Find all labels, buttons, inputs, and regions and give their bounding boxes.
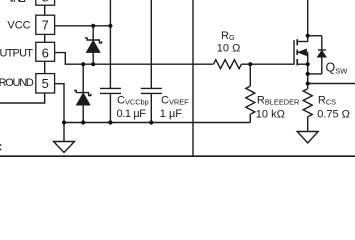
wire body-diode top horizontal [308, 35, 322, 37]
transistor Q1 body stub [298, 51, 308, 53]
junction dot rail/CVCCbp [108, 120, 112, 124]
zener diode D2 triangle [77, 93, 90, 105]
capacitor CVREF plates [141, 87, 162, 89]
wire zener D1 anode to output net [92, 52, 94, 64]
svg-text:RG: RG [221, 30, 235, 42]
junction dot VCC/CVCCbp [108, 24, 112, 28]
junction dot rail/ground [62, 120, 66, 124]
svg-text:OUTPUT: OUTPUT [0, 47, 33, 59]
svg-text:VCC: VCC [7, 19, 30, 31]
svg-text:8: 8 [42, 0, 49, 4]
zener diode D2 cathode bar with hooks [74, 91, 91, 96]
svg-text:RBLEEDER: RBLEEDER [257, 94, 299, 106]
junction dot RG/RBLEEDER [248, 62, 252, 66]
wire body-diode vertical [321, 36, 323, 74]
junction dot source stub [306, 62, 310, 66]
resistor RCS zigzag [303, 89, 312, 117]
svg-text:CVREF: CVREF [161, 94, 189, 106]
junction dot rail/zener D2 [81, 120, 85, 124]
svg-text:0.75 Ω: 0.75 Ω [317, 108, 350, 120]
wire RG to gate with gate bar [241, 40, 294, 64]
ground symbol (right) [297, 132, 318, 144]
wire RBLEEDER top lead [249, 64, 251, 86]
wire RBLEEDER bottom lead [249, 114, 251, 122]
transistor Q1 body arrow [298, 49, 306, 55]
zener diode D1 cathode bar with hooks [85, 38, 102, 43]
svg-text:10 kΩ: 10 kΩ [256, 108, 285, 120]
wire zener D2 top branch from output net [82, 64, 84, 92]
svg-text:1 µF: 1 µF [160, 108, 183, 120]
IC pin box 6 (OUTPUT) [36, 42, 55, 61]
wire OUTPUT from pin 6 with jog [55, 53, 214, 65]
long vertical wire (section divider) [192, 0, 194, 156]
junction dot output/zener D2 [81, 62, 85, 66]
svg-text:6: 6 [42, 45, 49, 60]
wire CVCCbp bottom lead [109, 93, 111, 122]
IC pin box 7 (VCC) [36, 15, 55, 34]
junction dot rail/CVREF [149, 120, 153, 124]
transistor Q1 source/body vertical down to RCS [307, 52, 309, 88]
wire CVREF vertical from top edge to cap [150, 0, 152, 88]
wire VCC from pin 7 [55, 25, 111, 27]
svg-text:QSW: QSW [326, 61, 349, 76]
IC pin box 5 (GROUND) [36, 74, 55, 93]
wire zener D2 anode to ground rail [82, 105, 84, 123]
svg-text:10 Ω: 10 Ω [217, 42, 241, 54]
junction dot sense wire [306, 81, 310, 85]
body diode cathode bar [318, 49, 326, 51]
transistor Q1 channel segment drain [296, 39, 298, 45]
junction dot body diode bottom [306, 72, 310, 76]
ground symbol stub (left) [63, 123, 65, 142]
svg-text:7: 7 [42, 17, 49, 32]
transistor Q1 source stub [297, 63, 308, 65]
ground symbol (left) [54, 142, 75, 153]
wire CVCCbp vertical from top edge down to cap top plate [109, 0, 111, 88]
bottom frame wire [0, 155, 355, 157]
svg-text:GROUND: GROUND [0, 77, 34, 89]
junction dot output/zener D1 [91, 62, 95, 66]
wire RCS bottom lead [307, 117, 309, 132]
junction dot drain/body diode [306, 34, 310, 38]
wire stub pin6-pin5 [44, 61, 46, 73]
small cut label dash at left edge (upper) [0, 144, 1, 146]
wire current-sense to right edge [308, 83, 355, 85]
transistor Q1 channel segment body [296, 50, 298, 56]
IC pin box 8 (VREF, cut at top) [36, 0, 55, 5]
svg-text:0.1 µF: 0.1 µF [117, 108, 147, 120]
junction dot VCC/zener D1 [91, 24, 95, 28]
resistor RBLEEDER zigzag [246, 86, 255, 114]
wire CVREF bottom lead [150, 93, 152, 122]
svg-text:VREF: VREF [8, 0, 30, 5]
wire ground rail [64, 122, 250, 124]
transistor Q1 channel segment source [296, 59, 298, 65]
capacitor CVCCbp plates [100, 87, 121, 89]
wire stub pin8-pin7 [44, 5, 46, 15]
body diode triangle [318, 51, 327, 57]
small cut label dash at left edge (lower) [0, 149, 1, 151]
transistor Q1 drain stub [297, 41, 308, 43]
resistor RG zigzag [214, 60, 242, 69]
wire GROUND from pin 5 with jog down to rail [55, 84, 65, 123]
svg-text:5: 5 [42, 76, 49, 91]
wire zener D1 top branch [92, 26, 94, 40]
svg-text:CVCCbp: CVCCbp [117, 94, 149, 106]
svg-text:RCS: RCS [318, 94, 336, 106]
wire body-diode bottom horizontal [308, 73, 322, 75]
transistor Q1 drain vertical from top edge [307, 0, 309, 42]
wire stub pin7-pin6 [44, 34, 46, 42]
wire stub below pin5 exiting left edge [0, 93, 45, 103]
zener diode D1 triangle [87, 41, 100, 53]
